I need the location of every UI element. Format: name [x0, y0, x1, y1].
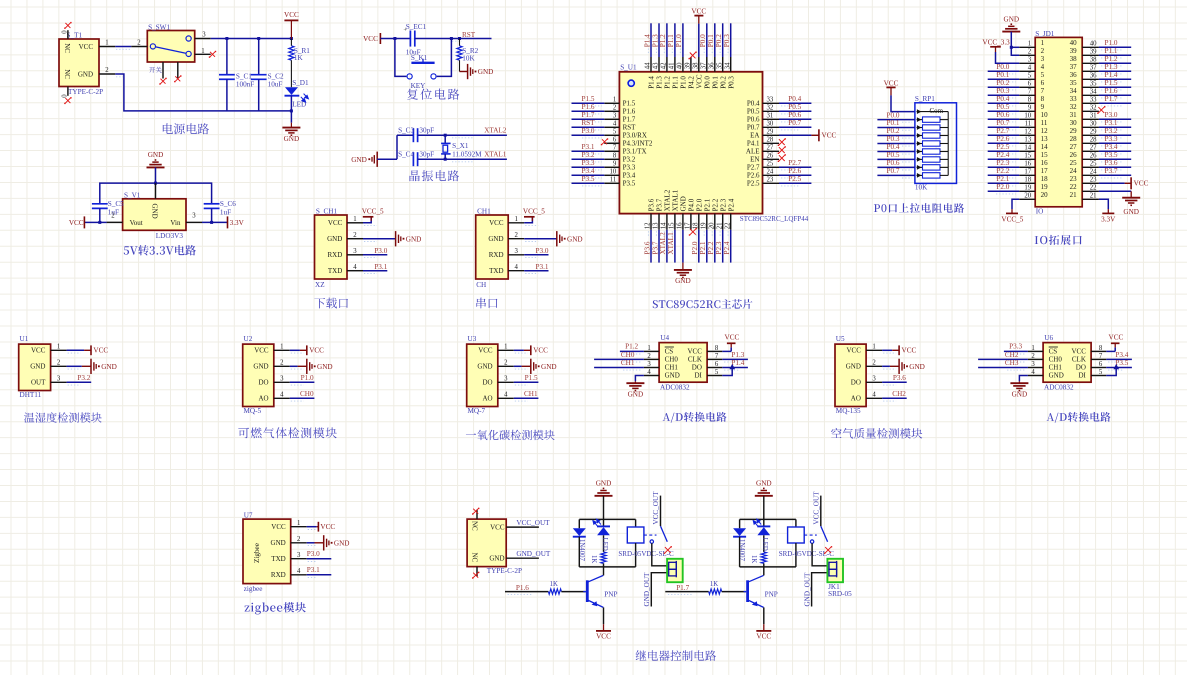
svg-text:38: 38 — [692, 62, 699, 69]
svg-text:P0.7: P0.7 — [996, 119, 1009, 127]
jd1 pin 2 — [1019, 54, 1035, 56]
svg-text:20: 20 — [1024, 193, 1031, 200]
rp1 resistor row P0.1 — [917, 127, 923, 129]
wire net P3.4 U6 clk — [1106, 358, 1132, 360]
svg-text:S_C6: S_C6 — [220, 200, 236, 208]
relay blade P1.6 — [661, 526, 668, 542]
relay common contact P1.7 — [810, 540, 813, 543]
svg-text:VCC: VCC — [687, 348, 702, 356]
svg-text:29: 29 — [1090, 129, 1097, 136]
svg-text:5: 5 — [1099, 369, 1103, 376]
power port VCC U2 — [290, 349, 300, 351]
net label P1.0 U2 — [290, 381, 315, 383]
wire net P1.7 jd1 right — [1099, 102, 1131, 104]
relay coil P1.7 — [795, 519, 797, 527]
svg-text:P1.1: P1.1 — [667, 34, 675, 47]
svg-text:P2.5: P2.5 — [996, 143, 1009, 151]
svg-text:VCC_5: VCC_5 — [523, 208, 545, 216]
svg-text:P1.4: P1.4 — [1105, 71, 1118, 79]
svg-text:S_X1: S_X1 — [452, 142, 469, 150]
svg-text:9: 9 — [1028, 105, 1032, 112]
resistor 1K base P1.7 — [709, 589, 722, 594]
wire net P0.6 rp1 — [877, 166, 915, 168]
diode S_D1 LED — [285, 87, 298, 95]
svg-text:36: 36 — [1070, 71, 1078, 79]
wire net P2.5 mcu right — [779, 182, 811, 184]
svg-text:DO: DO — [482, 379, 492, 387]
wire net P0.5 mcu right — [779, 110, 811, 112]
capacitor S_C1 — [219, 74, 235, 76]
jd1 pin 17 — [1019, 174, 1035, 176]
mcu pin 32 P0.5 — [763, 110, 780, 112]
U2 pin 1 — [274, 349, 290, 351]
svg-text:NC: NC — [63, 69, 71, 79]
svg-text:S_SW1: S_SW1 — [148, 23, 170, 31]
mcu pin 30 P0.7 — [763, 126, 780, 128]
CH1 pin 2 — [508, 238, 524, 240]
wire net P3.5 U6 do — [1106, 367, 1132, 369]
capacitor S_C4 — [412, 152, 414, 166]
power port GND S_CH1 — [363, 238, 396, 240]
svg-text:30pF: 30pF — [419, 126, 434, 134]
svg-text:2: 2 — [1031, 353, 1035, 360]
U2 pin 2 — [274, 365, 290, 367]
mcu pin 31 P0.6 — [763, 118, 780, 120]
svg-text:23: 23 — [1070, 175, 1078, 183]
svg-text:Com: Com — [930, 107, 944, 115]
svg-text:26: 26 — [1070, 151, 1078, 159]
jd1 pin 22 — [1082, 190, 1099, 192]
wire VCC to RP1 com — [891, 95, 915, 111]
svg-text:RXD: RXD — [271, 571, 286, 579]
svg-text:VCC: VCC — [320, 523, 335, 531]
svg-text:U5: U5 — [836, 335, 845, 343]
svg-text:XTAL2: XTAL2 — [484, 127, 507, 135]
svg-text:P3.4: P3.4 — [1105, 143, 1118, 151]
svg-text:11: 11 — [1025, 121, 1032, 128]
wire net P2.6 mcu right — [779, 174, 811, 176]
svg-text:VCC_OUT: VCC_OUT — [516, 519, 550, 527]
jd1 pin 29 — [1082, 134, 1099, 136]
svg-text:P1.7: P1.7 — [676, 584, 689, 592]
U6 pin 8 — [1091, 350, 1106, 352]
svg-text:P0.6: P0.6 — [788, 111, 801, 119]
svg-text:1: 1 — [280, 344, 283, 351]
svg-text:P1.5: P1.5 — [582, 95, 595, 103]
jd1 pin 38 — [1082, 62, 1099, 64]
svg-text:P2.2: P2.2 — [996, 167, 1009, 175]
svg-text:P0.3: P0.3 — [996, 87, 1009, 95]
no-ERC relay NC contact P1.7 — [824, 546, 832, 554]
svg-text:GND: GND — [30, 363, 45, 371]
net label P3.1 S_CH1 — [363, 270, 387, 272]
svg-text:5: 5 — [715, 369, 719, 376]
U2 pin 4 — [274, 397, 290, 399]
wire net P1.6 jd1 right — [1099, 94, 1131, 96]
wire net RST mcu left — [572, 126, 605, 128]
svg-text:TXD: TXD — [328, 267, 342, 275]
power port VCC U7 — [307, 526, 317, 528]
svg-text:GND: GND — [665, 372, 680, 380]
svg-text:17: 17 — [1024, 169, 1031, 176]
jd1 pin 14 — [1019, 150, 1035, 152]
svg-text:P2.1: P2.1 — [704, 198, 712, 211]
resistor 1K vertical P1.7 — [761, 552, 766, 564]
svg-text:P1.3: P1.3 — [731, 351, 744, 359]
U4 pin 6 — [707, 367, 722, 369]
svg-text:P3.0: P3.0 — [307, 550, 320, 558]
svg-text:P0.5: P0.5 — [887, 151, 900, 159]
wire collector P1.7 — [763, 567, 765, 576]
S_T1 pin 2 — [99, 73, 115, 75]
mcu pin 22 P2.4 bottom — [730, 214, 732, 230]
wire VCC mcu top — [698, 24, 700, 57]
mcu pin 29 EA — [763, 134, 780, 136]
svg-text:VCC: VCC — [93, 347, 108, 355]
wire net P1.7 mcu left — [572, 118, 605, 120]
title U3 module — [466, 430, 555, 440]
svg-text:35: 35 — [1090, 81, 1097, 88]
rp1 resistor row P0.2 — [917, 135, 923, 137]
wire jd1 pin20 VCC_5 — [1012, 199, 1019, 209]
svg-text:GND: GND — [488, 235, 503, 243]
svg-text:26: 26 — [1090, 153, 1097, 160]
svg-text:P1.2: P1.2 — [625, 342, 638, 350]
power port VCC U6 — [1114, 347, 1116, 351]
svg-text:VCC: VCC — [363, 35, 378, 43]
svg-text:GND: GND — [567, 235, 583, 243]
junction jd1 gnd — [1010, 46, 1013, 49]
wire net P1.4 mcu top — [650, 23, 652, 57]
svg-text:1: 1 — [1041, 39, 1045, 47]
svg-text:GND: GND — [1049, 372, 1064, 380]
svg-text:7: 7 — [1099, 353, 1103, 360]
key S_K1 right lead — [437, 39, 452, 77]
svg-text:15: 15 — [1024, 153, 1031, 160]
svg-text:7: 7 — [1041, 87, 1045, 95]
svg-text:SRD-05VDC-SL-C: SRD-05VDC-SL-C — [618, 550, 674, 558]
junction at C2 — [257, 37, 260, 40]
U6 pin 6 — [1091, 367, 1106, 369]
svg-text:P0.5: P0.5 — [788, 103, 801, 111]
svg-text:P3.6: P3.6 — [648, 198, 656, 211]
wire net P3.4 mcu left — [572, 174, 605, 176]
mcu pin 9 P3.3 — [604, 166, 619, 168]
svg-text:GND: GND — [596, 480, 612, 488]
wire net P0.3 rp1 — [877, 143, 915, 145]
wire VCC_OUT from TYPE-C — [506, 526, 539, 528]
U6 pin 5 — [1091, 375, 1106, 377]
svg-text:40: 40 — [1090, 41, 1097, 48]
svg-text:1uF: 1uF — [220, 208, 231, 216]
wire collector P1.6 — [603, 567, 605, 576]
wire gnd_out to terminal P1.6 — [651, 573, 668, 607]
wire net P0.3 mcu top — [730, 23, 732, 57]
svg-text:VCC: VCC — [533, 347, 548, 355]
jd1 pin 9 — [1019, 110, 1035, 112]
svg-text:VCC: VCC — [1071, 348, 1086, 356]
svg-text:VCC: VCC — [31, 347, 46, 355]
svg-text:VCC: VCC — [309, 347, 324, 355]
svg-text:1: 1 — [613, 97, 616, 104]
wire VCC to EC1 — [380, 38, 410, 40]
wire ldo top rail — [100, 183, 212, 203]
transistor PNP P1.6 — [586, 580, 589, 602]
svg-text:GND_OUT: GND_OUT — [516, 550, 551, 558]
svg-text:P2.5: P2.5 — [788, 175, 801, 183]
svg-text:7: 7 — [715, 353, 719, 360]
relay coil P1.6 — [635, 519, 637, 527]
svg-text:P1.4: P1.4 — [731, 359, 744, 367]
svg-text:6: 6 — [1041, 79, 1045, 87]
mcu pin 5 P3.0/RX — [604, 134, 619, 136]
wire net CH3 U6 — [978, 367, 1028, 369]
svg-text:P2.4: P2.4 — [996, 151, 1009, 159]
svg-text:30: 30 — [1070, 119, 1078, 127]
svg-text:4: 4 — [872, 392, 876, 399]
svg-text:P1.6: P1.6 — [582, 103, 595, 111]
svg-text:VCC: VCC — [328, 219, 343, 227]
svg-text:P3.5: P3.5 — [1115, 359, 1128, 367]
svg-text:P3.3: P3.3 — [1105, 135, 1118, 143]
net label CH1 U3 — [514, 397, 539, 399]
junction at C1 — [225, 37, 228, 40]
svg-text:P0.7: P0.7 — [788, 119, 801, 127]
wire jd1 pin21 3.3V — [1099, 199, 1108, 209]
mcu pin 36 P0.1 top — [714, 57, 716, 72]
svg-text:P0.0: P0.0 — [996, 63, 1009, 71]
svg-text:P0.6: P0.6 — [996, 111, 1009, 119]
svg-text:P0.1: P0.1 — [711, 76, 719, 89]
module U3 body — [467, 344, 498, 406]
U3 pin 1 — [498, 349, 514, 351]
power port VCC U5 — [882, 349, 892, 351]
svg-text:P1.6: P1.6 — [1105, 87, 1118, 95]
net label P3.1 CH1 — [524, 270, 548, 272]
jd1 pin 11 — [1019, 126, 1035, 128]
jd1 pin 8 — [1019, 102, 1035, 104]
wire net P0.1 jd1 left — [988, 78, 1020, 80]
S_CH1 pin 2 — [347, 238, 363, 240]
svg-text:16: 16 — [677, 222, 684, 229]
relay actuator dashed P1.7 — [804, 534, 817, 536]
jd1 pin 10 — [1019, 118, 1035, 120]
key S_K1 contacts — [407, 74, 412, 79]
svg-text:P2.7: P2.7 — [996, 127, 1009, 135]
svg-text:1K: 1K — [750, 555, 757, 563]
adc U4 body — [659, 343, 707, 383]
svg-text:GND: GND — [628, 391, 644, 399]
switch S_SW1 body — [147, 31, 194, 63]
svg-text:DO: DO — [692, 364, 702, 372]
wire net P0.7 jd1 left — [988, 126, 1020, 128]
wire net P0.1 mcu top — [714, 23, 716, 57]
svg-text:VCC_5: VCC_5 — [1001, 215, 1023, 223]
svg-text:3: 3 — [1028, 57, 1032, 64]
connector S_CH1 body — [315, 215, 348, 279]
wire net P2.7 jd1 left — [988, 134, 1020, 136]
wire net P0.2 mcu top — [722, 23, 724, 57]
svg-text:24: 24 — [767, 169, 774, 176]
svg-text:4: 4 — [647, 369, 651, 376]
svg-text:3: 3 — [1041, 55, 1045, 63]
wire VCC_OUT down P1.7 — [820, 496, 822, 526]
svg-text:3: 3 — [57, 376, 61, 383]
svg-text:1N4007: 1N4007 — [578, 539, 585, 562]
svg-text:11: 11 — [610, 177, 617, 184]
wire VCC U4 — [722, 350, 731, 352]
wire net P2.0 mcu bottom — [698, 230, 700, 263]
svg-text:1N4007: 1N4007 — [738, 539, 745, 562]
svg-text:P3.5: P3.5 — [582, 175, 595, 183]
wire VCC_OUT down P1.6 — [660, 496, 662, 526]
svg-text:13: 13 — [653, 222, 660, 229]
key S_K1 button bar — [411, 62, 434, 64]
svg-text:GND: GND — [351, 156, 367, 164]
svg-text:P2.5: P2.5 — [747, 180, 760, 188]
svg-text:CH0: CH0 — [300, 390, 314, 398]
svg-text:U4: U4 — [660, 334, 669, 342]
svg-text:P3.4: P3.4 — [582, 167, 595, 175]
svg-text:GND: GND — [1004, 15, 1020, 23]
U7 pin 1 — [291, 526, 307, 528]
svg-text:25: 25 — [1070, 159, 1078, 167]
wire gnd to C3/C4 rail — [377, 158, 397, 160]
svg-text:CH1: CH1 — [665, 364, 679, 372]
svg-text:P2.0: P2.0 — [996, 183, 1009, 191]
wire net P0.5 jd1 left — [988, 110, 1020, 112]
wire net P0.0 mcu top — [706, 23, 708, 57]
svg-text:29: 29 — [1070, 127, 1078, 135]
svg-text:MQ-7: MQ-7 — [468, 407, 486, 415]
rp1 resistor row P0.5 — [917, 158, 923, 160]
svg-text:AO: AO — [482, 395, 492, 403]
U6 pin 1 — [1028, 350, 1043, 352]
wire net P1.0 jd1 right — [1099, 46, 1131, 48]
svg-text:39: 39 — [1070, 47, 1078, 55]
title relay control circuit — [636, 650, 717, 661]
wire net P2.1 mcu bottom — [706, 230, 708, 263]
LED arrows P1.6 — [593, 519, 601, 526]
mcu pin 12 P3.6 bottom — [650, 214, 652, 230]
junction crystal bottom — [444, 158, 447, 161]
svg-text:S_D1: S_D1 — [292, 79, 309, 87]
power port GND U7 — [307, 542, 315, 544]
wire net P1.3 U4 clk — [722, 358, 748, 360]
U1 pin 2 — [51, 365, 67, 367]
svg-text:CH1: CH1 — [621, 359, 635, 367]
svg-text:CH3: CH3 — [1005, 359, 1019, 367]
svg-text:GND: GND — [489, 555, 504, 563]
svg-text:P2.1: P2.1 — [996, 175, 1009, 183]
svg-text:GND: GND — [675, 277, 691, 285]
svg-text:Zigbee: Zigbee — [253, 543, 261, 563]
svg-text:S_JD1: S_JD1 — [1035, 30, 1055, 38]
mcu pin 8 P3.2 — [604, 158, 619, 160]
wire emitter to VCC P1.7 — [763, 607, 765, 624]
U3 pin 3 — [498, 381, 514, 383]
svg-text:P0.7: P0.7 — [747, 124, 760, 132]
svg-text:U2: U2 — [244, 335, 253, 343]
switch pin 1 — [195, 53, 211, 55]
wire net P0.6 mcu right — [779, 118, 811, 120]
wire net P0.3 jd1 left — [988, 94, 1020, 96]
svg-text:P1.4: P1.4 — [643, 34, 651, 47]
capacitor S_C2 — [251, 74, 267, 76]
svg-text:XTAL1: XTAL1 — [484, 151, 507, 159]
net label P3.0 S_CH1 — [363, 254, 387, 256]
svg-text:GND: GND — [327, 235, 342, 243]
svg-text:1: 1 — [353, 216, 356, 223]
wire C2 bottom — [258, 79, 260, 111]
svg-text:OUT: OUT — [31, 379, 46, 387]
svg-text:37: 37 — [1090, 65, 1097, 72]
wire net P1.4 U4 do — [722, 367, 748, 369]
mcu pin 10 P3.4 — [604, 174, 619, 176]
svg-text:VCC: VCC — [596, 633, 611, 641]
svg-text:8: 8 — [1028, 97, 1032, 104]
U5 pin 1 — [866, 349, 882, 351]
svg-text:3: 3 — [1031, 361, 1035, 368]
mcu pin 18 P2.0 bottom — [698, 214, 700, 230]
svg-text:RXD: RXD — [328, 251, 343, 259]
svg-text:7: 7 — [1028, 89, 1032, 96]
svg-text:P2.2: P2.2 — [712, 198, 720, 211]
power port GND relay P1.6 — [595, 495, 613, 497]
svg-text:18: 18 — [692, 222, 699, 229]
svg-text:S_V1: S_V1 — [124, 191, 141, 199]
svg-text:S_C2: S_C2 — [268, 72, 284, 80]
svg-text:CH1: CH1 — [1049, 364, 1063, 372]
power port VCC_5 jd1 — [1011, 209, 1013, 213]
title fuwei dianlu — [407, 89, 459, 100]
svg-text:P0.6: P0.6 — [887, 159, 900, 167]
wire net P0.4 jd1 left — [988, 102, 1020, 104]
svg-text:P3.3: P3.3 — [623, 164, 636, 172]
svg-text:2: 2 — [647, 353, 651, 360]
wire net P3.1 mcu left — [572, 150, 605, 152]
U5 pin 3 — [866, 381, 882, 383]
svg-text:GND_OUT: GND_OUT — [803, 572, 811, 607]
junction arrow U4 — [729, 364, 735, 369]
mcu pin 6 P4.3/INT2 — [604, 142, 619, 144]
wire net P0.0 jd1 left — [988, 70, 1020, 72]
module U7 zigbee body — [243, 519, 291, 584]
svg-text:24: 24 — [1070, 167, 1078, 175]
svg-text:21: 21 — [1090, 193, 1097, 200]
svg-text:12: 12 — [1041, 127, 1049, 135]
wire net P0.0 rp1 — [877, 119, 915, 121]
capacitor S_C6 — [204, 203, 220, 205]
power port GND power circuit — [290, 123, 292, 128]
svg-text:39: 39 — [685, 62, 692, 69]
mcu pin 25 P2.7 — [763, 166, 780, 168]
title P0 pull-up — [874, 203, 964, 213]
svg-text:P3.0: P3.0 — [582, 127, 595, 135]
svg-text:4: 4 — [280, 392, 284, 399]
U5 pin 4 — [866, 397, 882, 399]
title zigbee module — [245, 602, 306, 614]
wire P1.6 to base resistor — [505, 591, 548, 593]
svg-text:DHT11: DHT11 — [20, 391, 42, 399]
svg-text:24: 24 — [1090, 169, 1097, 176]
wire net P3.3 mcu left — [572, 166, 605, 168]
svg-text:44: 44 — [645, 62, 652, 69]
power port GND jd1 bottom — [1130, 191, 1132, 197]
S_CH1 pin 3 — [347, 254, 363, 256]
power port GND reset — [460, 71, 468, 73]
svg-text:31: 31 — [1090, 113, 1097, 120]
